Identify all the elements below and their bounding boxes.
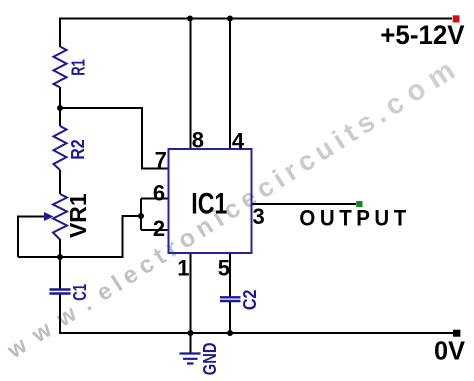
wire pin 6 stub [141, 198, 169, 200]
resistor R2 [54, 126, 67, 170]
svg-text:R1: R1 [67, 59, 88, 76]
svg-text:8: 8 [192, 127, 204, 152]
wire ground stub [190, 333, 192, 353]
node junction VR1 bottom [57, 254, 63, 260]
wire wiper node to pins 2 and 6 [18, 216, 141, 257]
terminal OUTPUT green [356, 201, 362, 207]
timer IC1 box [169, 149, 252, 253]
capacitor C1 plates [50, 290, 71, 294]
wire pin 2 stub [141, 229, 169, 231]
svg-text:1: 1 [177, 256, 189, 281]
node junction bottom rail pin 1/GND [188, 330, 194, 336]
node junction top rail pin 8 [187, 16, 193, 22]
svg-text:5: 5 [218, 256, 230, 281]
svg-text:VR1: VR1 [65, 193, 91, 238]
svg-text:2: 2 [153, 216, 165, 241]
svg-text:C2: C2 [239, 290, 260, 311]
svg-text:4: 4 [232, 128, 245, 153]
capacitor C2 plates [220, 297, 241, 301]
svg-text:7: 7 [155, 148, 167, 173]
wire pin 4 from top rail [229, 19, 231, 150]
svg-text:C1: C1 [69, 284, 90, 301]
wire pin 5 to C2 [229, 253, 231, 297]
terminal 0V black [453, 330, 460, 337]
wire VR1 wiper feedback loop [18, 217, 45, 258]
wire node to pin 7 [60, 108, 169, 169]
svg-text:GND: GND [199, 343, 220, 376]
wire R2 bottom to VR1 top [59, 170, 61, 194]
wire bottom rail 0V [59, 332, 453, 334]
potentiometer VR1 [53, 194, 67, 240]
wire left rail top segment [59, 18, 61, 48]
wire pin 3 output [252, 203, 357, 205]
wire pin 8 from top rail [190, 19, 192, 150]
svg-text:IC1: IC1 [191, 188, 227, 221]
wire VR1 bottom to C1 top [59, 239, 61, 289]
wire R1 bottom to R2 top through node [59, 87, 61, 126]
svg-text:3: 3 [253, 204, 265, 229]
svg-text:R2: R2 [67, 139, 88, 159]
node junction bottom rail C2 [227, 330, 233, 336]
node junction top rail pin 4 [227, 16, 233, 22]
resistor R1 [54, 47, 67, 88]
svg-text:OUTPUT: OUTPUT [299, 206, 410, 231]
VR1 wiper arrowhead [44, 212, 54, 221]
wire top rail +V [60, 18, 452, 20]
svg-text:0V: 0V [434, 336, 466, 366]
svg-text:6: 6 [153, 180, 165, 205]
wire bracket joining pin 6 and pin 2 [140, 199, 142, 231]
terminal +V red [453, 15, 460, 22]
ground bars [180, 354, 201, 364]
wire pin 1 to bottom rail [190, 253, 192, 333]
node junction pins 2-6 bracket [138, 213, 144, 219]
svg-text:+5-12V: +5-12V [380, 20, 465, 50]
node junction R1/R2/pin7 [57, 105, 63, 111]
wire C1 bottom to bottom rail [59, 295, 61, 334]
wire C2 to bottom rail [229, 302, 231, 334]
